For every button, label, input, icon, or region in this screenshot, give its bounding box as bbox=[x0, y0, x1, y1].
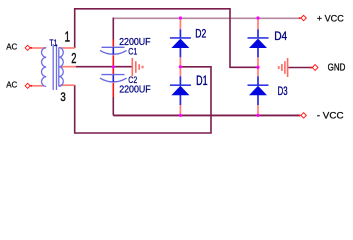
svg-text:AC: AC bbox=[6, 81, 17, 90]
svg-text:T1: T1 bbox=[49, 38, 57, 48]
svg-text:AC: AC bbox=[6, 43, 17, 52]
svg-text:3: 3 bbox=[60, 90, 65, 104]
svg-text:D1: D1 bbox=[196, 73, 208, 88]
svg-text:D3: D3 bbox=[278, 84, 288, 98]
svg-text:2200UF: 2200UF bbox=[119, 84, 151, 95]
svg-text:D2: D2 bbox=[195, 27, 206, 41]
svg-text:GND: GND bbox=[328, 62, 346, 74]
svg-text:C2: C2 bbox=[128, 75, 137, 85]
svg-text:1: 1 bbox=[65, 28, 71, 45]
svg-text:+ VCC: + VCC bbox=[317, 14, 344, 24]
svg-text:C1: C1 bbox=[128, 45, 137, 56]
svg-text:D4: D4 bbox=[274, 29, 287, 43]
svg-text:2: 2 bbox=[71, 51, 76, 67]
svg-text:- VCC: - VCC bbox=[317, 111, 344, 121]
